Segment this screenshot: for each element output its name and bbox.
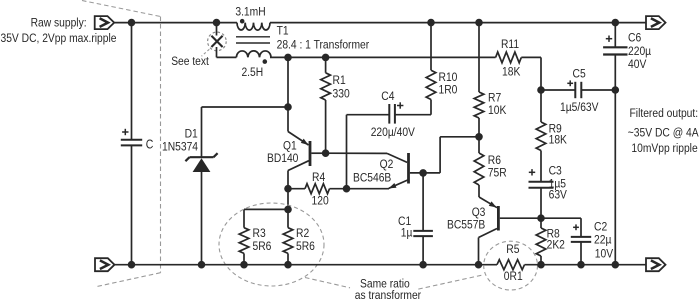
- resistor R5: [497, 260, 525, 270]
- transistor Q2 bar: [407, 153, 410, 184]
- capacitor C1: [413, 231, 433, 236]
- wire top rail to C: [131, 23, 133, 140]
- junction dot Q1 base: [322, 149, 330, 157]
- wire C2 top: [541, 218, 581, 237]
- label 35V DC, 2Vpp max.ripple: [1, 31, 117, 45]
- wire X to secondary: [216, 47, 218, 57]
- label Q1: [283, 139, 297, 153]
- svg-text:330: 330: [333, 87, 350, 101]
- transformer core: [236, 37, 270, 43]
- svg-text:~35V DC @ 4A: ~35V DC @ 4A: [628, 126, 699, 140]
- svg-text:1R0: 1R0: [439, 83, 458, 97]
- wire C1 bottom: [422, 236, 424, 265]
- label 10mVpp ripple: [631, 141, 697, 155]
- svg-text:as transformer: as transformer: [355, 288, 421, 300]
- svg-text:75R: 75R: [488, 166, 507, 180]
- junction dots top rail: [128, 19, 619, 27]
- wire R1 top: [325, 57, 327, 72]
- label BC546B: [353, 171, 391, 185]
- dashed boundary (raw-supply section): [82, 1, 161, 287]
- svg-text:C: C: [146, 137, 154, 151]
- label BC557B: [447, 217, 485, 231]
- label 120: [312, 194, 329, 208]
- wire bottom rail right: [525, 264, 647, 266]
- wire branch to R3: [244, 209, 288, 227]
- junction dot D1 node: [284, 103, 292, 111]
- label R4: [312, 170, 325, 184]
- label 1R0: [439, 83, 458, 97]
- svg-text:18K: 18K: [502, 65, 521, 79]
- wire Q2 base: [410, 172, 440, 174]
- svg-text:C3: C3: [549, 164, 562, 178]
- label C: [146, 137, 154, 151]
- wire R6 bottom: [478, 185, 480, 197]
- dashed ellipse around R2 R3: [219, 203, 324, 286]
- label C1: [398, 214, 411, 228]
- dashed leader to See text: [202, 49, 210, 56]
- svg-text:2.5H: 2.5H: [241, 65, 263, 79]
- svg-text:BD140: BD140: [267, 151, 298, 165]
- label D1: [185, 126, 198, 140]
- Q1 emitter arrow: [301, 139, 309, 145]
- svg-text:C4: C4: [381, 89, 394, 103]
- wire node to R8: [540, 218, 542, 228]
- svg-text:35V DC, 2Vpp max.ripple: 35V DC, 2Vpp max.ripple: [1, 31, 117, 45]
- wire secondary middle: [270, 56, 496, 58]
- svg-text:R5: R5: [506, 242, 519, 256]
- wire R2 top: [287, 209, 289, 227]
- svg-text:R4: R4: [312, 170, 325, 184]
- resistor R2: [283, 228, 293, 254]
- label C6: [628, 30, 641, 44]
- label C3: [549, 164, 562, 178]
- wire secondary left: [217, 56, 237, 58]
- wire Q2 collector diagonal: [387, 153, 407, 162]
- svg-text:Raw supply:: Raw supply:: [31, 15, 87, 29]
- label R9: [549, 122, 562, 136]
- transformer T1 secondary winding 2.5H: [236, 51, 271, 58]
- svg-text:40V: 40V: [628, 57, 647, 71]
- svg-text:C5: C5: [573, 67, 586, 81]
- capacitor C: [121, 140, 142, 146]
- label 5R6 (R3): [253, 239, 272, 253]
- label 1u5/63V: [560, 100, 599, 114]
- junction dot R2 R3 branch: [284, 206, 292, 214]
- resistor R4: [305, 184, 330, 194]
- wire C2 bottom: [580, 242, 582, 265]
- svg-text:120: 120: [312, 194, 329, 208]
- label R5: [506, 242, 519, 256]
- wire Q1 base to Q2 collector: [326, 152, 387, 154]
- svg-text:T1: T1: [277, 24, 289, 38]
- label R8: [547, 227, 560, 241]
- svg-text:63V: 63V: [549, 188, 568, 202]
- dashed ellipse around R5: [484, 241, 538, 290]
- output connector (filtered +) top-right: [646, 16, 666, 29]
- svg-text:18K: 18K: [549, 133, 568, 147]
- label Q3: [472, 205, 486, 219]
- svg-text:3.1mH: 3.1mH: [235, 4, 265, 18]
- label R3: [253, 226, 266, 240]
- input connector (raw supply -) bottom-left: [95, 258, 115, 271]
- wire C5 left: [541, 89, 575, 91]
- label 220u (C6): [628, 44, 651, 58]
- dashed leader right (same ratio): [418, 275, 484, 289]
- wire secondary junction down to D1 node: [287, 57, 289, 107]
- svg-text:Q2: Q2: [380, 157, 394, 171]
- resistor R6: [474, 153, 484, 185]
- label R10: [439, 70, 458, 84]
- plus sign (C3): [529, 169, 535, 175]
- svg-text:1N5374: 1N5374: [162, 140, 198, 154]
- label BD140: [267, 151, 298, 165]
- label 75R: [488, 166, 507, 180]
- junction dots R4 row: [284, 185, 350, 193]
- label 1N5374: [162, 140, 198, 154]
- resistor R1: [321, 73, 331, 100]
- label R6: [488, 153, 501, 167]
- resistor R11: [496, 52, 522, 63]
- capacitor C4: [389, 104, 395, 124]
- label Filtered output:: [630, 106, 699, 120]
- svg-text:1µ5/63V: 1µ5/63V: [560, 100, 599, 114]
- label as transformer: [355, 288, 421, 300]
- wire R4 node down: [287, 189, 289, 210]
- label 1u: [401, 226, 413, 240]
- wire R9 to C3: [540, 151, 542, 182]
- wire R9 top: [540, 90, 542, 122]
- output connector (filtered -) bottom-right: [646, 258, 666, 271]
- svg-text:220µ: 220µ: [628, 44, 651, 58]
- wire top rail right: [270, 22, 646, 24]
- svg-text:BC557B: BC557B: [447, 217, 485, 231]
- transistor Q1 bar: [309, 141, 312, 166]
- plus sign (C6): [606, 36, 612, 42]
- wire C1 top: [422, 173, 424, 231]
- label 2K2: [547, 238, 565, 252]
- label 330: [333, 87, 350, 101]
- junction dots secondary: [284, 54, 329, 62]
- junction dots C5 row: [537, 86, 619, 94]
- wire Q3 emitter diagonal: [479, 197, 497, 208]
- wire Q1 base: [311, 152, 325, 154]
- label 18K (R11): [502, 65, 521, 79]
- wire C4 right: [395, 100, 431, 115]
- capacitor C5: [575, 82, 581, 98]
- capacitor C2: [571, 237, 591, 242]
- label 220u/40V: [371, 125, 416, 139]
- label 28.4 : 1 Transformer: [277, 37, 370, 51]
- svg-text:10K: 10K: [488, 103, 507, 117]
- label 0R1: [504, 269, 523, 283]
- svg-text:10mVpp ripple: 10mVpp ripple: [631, 141, 697, 155]
- wire R4 right: [330, 188, 347, 190]
- resistor R9: [536, 122, 546, 151]
- svg-text:R11: R11: [501, 37, 519, 51]
- label 3.1mH: [235, 4, 265, 18]
- input connector (raw supply +) top-left: [95, 16, 115, 29]
- Q3 emitter arrow: [489, 201, 497, 207]
- wire C5 right: [581, 89, 615, 91]
- svg-text:2K2: 2K2: [547, 238, 565, 252]
- wire Q2 emitter: [347, 180, 408, 189]
- phase dot primary: [240, 19, 245, 24]
- svg-text:5R6: 5R6: [296, 239, 315, 253]
- wire R3 bottom: [243, 253, 245, 264]
- resistor R7: [474, 92, 484, 118]
- wire R4 left: [288, 188, 305, 190]
- diode D1 (zener): [185, 153, 217, 172]
- dashed leader left (same ratio): [305, 278, 350, 288]
- label R2: [296, 226, 309, 240]
- label C4: [381, 89, 394, 103]
- dashed circle around X: [208, 32, 227, 51]
- wire R7 top: [478, 23, 480, 92]
- junction dot Q2 base: [419, 169, 427, 177]
- svg-text:D1: D1: [185, 126, 198, 140]
- label 1u5 (C3): [549, 177, 566, 191]
- plus sign (C5): [567, 80, 573, 86]
- svg-text:R2: R2: [296, 226, 309, 240]
- label Raw supply:: [31, 15, 87, 29]
- wire top rail to X: [216, 23, 218, 36]
- wire R11 to corner: [521, 57, 541, 90]
- X symbol (see text): [211, 36, 222, 47]
- wire C6 down: [614, 55, 616, 265]
- transformer T1 primary winding 3.1mH: [237, 23, 270, 30]
- label 10V: [595, 247, 614, 261]
- label 22u: [594, 233, 611, 247]
- wire Q3 base: [500, 217, 541, 219]
- wire C to bottom rail: [131, 145, 133, 264]
- phase dot secondary: [263, 59, 268, 64]
- svg-text:28.4 : 1 Transformer: 28.4 : 1 Transformer: [277, 37, 370, 51]
- capacitor C6: [603, 47, 627, 54]
- plus sign (C4): [397, 102, 403, 108]
- wire R1 bottom: [325, 100, 327, 153]
- label See text: [171, 54, 209, 68]
- junction dots bottom rail: [128, 261, 619, 269]
- label C5: [573, 67, 586, 81]
- wire R10 top: [430, 23, 432, 71]
- label R7: [488, 91, 501, 105]
- wire R2 bottom: [287, 253, 289, 264]
- transistor Q3 bar: [497, 206, 500, 231]
- wire Q1 collector: [288, 161, 309, 189]
- wire D1 vertical top: [201, 107, 203, 157]
- wire R8 bottom: [540, 256, 542, 265]
- label 40V (C6): [628, 57, 647, 71]
- label C2: [594, 220, 607, 234]
- label 18K (R9): [549, 133, 568, 147]
- label R11: [501, 37, 519, 51]
- capacitor C3: [529, 182, 554, 188]
- wire C4 left: [347, 115, 390, 189]
- wire C6 top: [614, 23, 616, 48]
- label Q2: [380, 157, 394, 171]
- junction dot C3 R8 node: [537, 214, 545, 222]
- svg-text:R1: R1: [333, 73, 346, 87]
- wire R6 top: [478, 137, 480, 153]
- wire D1 to bottom rail: [201, 172, 203, 265]
- label 2.5H: [241, 65, 263, 79]
- wire R7 bottom: [478, 118, 480, 137]
- wire Q3 collector: [479, 229, 498, 265]
- label 63V (C3): [549, 188, 568, 202]
- svg-text:5R6: 5R6: [253, 239, 272, 253]
- label R1: [333, 73, 346, 87]
- junction dot R7 R6: [475, 133, 483, 141]
- svg-text:220µ/40V: 220µ/40V: [371, 125, 416, 139]
- wire Q2 base corner: [440, 137, 479, 173]
- svg-text:R3: R3: [253, 226, 266, 240]
- svg-text:1µ: 1µ: [401, 226, 413, 240]
- label Same ratio: [360, 277, 410, 291]
- Q2 emitter arrow: [389, 183, 397, 188]
- resistor R10: [426, 70, 436, 99]
- wire C3 to node: [540, 188, 542, 218]
- svg-text:0R1: 0R1: [504, 269, 523, 283]
- plus sign (C): [122, 129, 128, 135]
- plus sign (C2): [573, 224, 579, 230]
- svg-text:C6: C6: [628, 30, 641, 44]
- resistor R8: [536, 228, 546, 256]
- wire Q1 emitter: [288, 107, 309, 145]
- wire bottom rail left: [115, 264, 498, 266]
- label T1: [277, 24, 289, 38]
- resistor R3: [239, 228, 249, 254]
- svg-text:10V: 10V: [595, 247, 614, 261]
- svg-text:BC546B: BC546B: [353, 171, 391, 185]
- label ~35V DC @ 4A: [628, 126, 699, 140]
- wire top rail left: [114, 22, 237, 24]
- svg-text:22µ: 22µ: [594, 233, 611, 247]
- svg-text:See text: See text: [171, 54, 209, 68]
- svg-text:Filtered output:: Filtered output:: [630, 106, 699, 120]
- wire D1 top: [202, 106, 289, 108]
- label 10K: [488, 103, 507, 117]
- label 5R6 (R2): [296, 239, 315, 253]
